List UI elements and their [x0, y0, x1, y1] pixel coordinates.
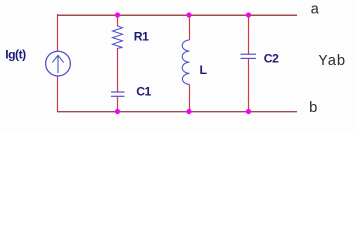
wire branch3 bottom lead — [248, 59, 250, 112]
capacitor C1 top plate — [111, 91, 125, 93]
svg-text:Yab: Yab — [319, 53, 346, 70]
wire left vertical lower — [57, 77, 59, 113]
svg-text:R1: R1 — [134, 29, 149, 43]
capacitor C2 top plate — [241, 53, 257, 55]
svg-text:C1: C1 — [136, 84, 151, 98]
node junction top L — [186, 12, 191, 17]
node junction bottom L — [186, 109, 191, 114]
wire bottom rail — [57, 111, 297, 113]
svg-text:Ig(t): Ig(t) — [5, 48, 26, 62]
node junction top C2 — [246, 12, 251, 17]
wire branch3 top lead — [248, 14, 250, 54]
capacitor C1 bottom plate — [111, 95, 125, 97]
node junction top R1 — [115, 12, 120, 17]
resistor R1 — [113, 26, 123, 48]
wire left vertical upper — [57, 14, 59, 51]
node junction bottom R1 — [115, 109, 120, 114]
wire branch1 middle lead — [117, 48, 119, 92]
capacitor C2 bottom plate — [241, 57, 257, 59]
wire branch2 top lead — [189, 14, 191, 40]
wire branch2 bottom lead — [189, 85, 191, 113]
svg-text:C2: C2 — [264, 51, 279, 65]
inductor L — [182, 40, 189, 85]
wire top rail — [57, 14, 297, 16]
svg-text:L: L — [200, 63, 208, 77]
wire branch1 top lead — [117, 14, 119, 27]
svg-text:b: b — [309, 100, 318, 117]
current source Ig circle — [46, 51, 71, 76]
svg-text:a: a — [310, 2, 319, 19]
current source arrow head — [52, 55, 63, 62]
node junction bottom C2 — [246, 109, 251, 114]
wire branch1 bottom lead — [117, 97, 119, 112]
current source arrow shaft — [57, 56, 59, 73]
